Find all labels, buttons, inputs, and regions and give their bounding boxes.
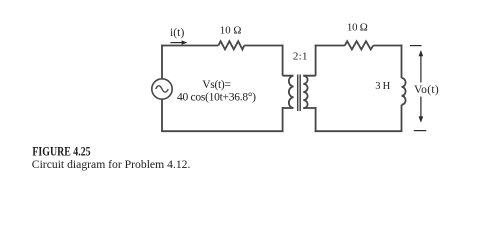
- svg-text:Vs(t)=: Vs(t)=: [202, 79, 231, 91]
- svg-text:i(t): i(t): [170, 27, 184, 39]
- wire left-loop top: [161, 45, 283, 47]
- resistor R2 10 ohm (right loop) zigzag: [345, 41, 374, 49]
- ac source Vs circle: [152, 79, 172, 99]
- svg-text:10 Ω: 10 Ω: [347, 22, 368, 34]
- current arrow i(t): [171, 40, 188, 44]
- wire right-loop right lower: [401, 105, 403, 132]
- inductor L1 3H (3 loops, bulge right): [402, 78, 406, 105]
- wire left-loop right + step into transformer primary: [283, 45, 294, 133]
- svg-text:40 cos(10t+36.8°): 40 cos(10t+36.8°): [177, 92, 256, 104]
- svg-text:2:1: 2:1: [293, 51, 308, 63]
- svg-text:3 H: 3 H: [375, 81, 390, 92]
- wire left-loop left upper: [161, 45, 163, 79]
- transformer core (two vertical lines): [298, 75, 301, 112]
- wire left-loop left lower: [161, 99, 163, 131]
- transformer secondary coil (4 loops, bulge right): [303, 76, 307, 109]
- transformer primary coil (3 loops, bulge left): [289, 76, 294, 108]
- voltage arrow Vo(t) (double-headed with end ticks): [410, 46, 426, 131]
- wire left-loop bottom: [161, 130, 283, 132]
- svg-text:Circuit diagram for Problem 4.: Circuit diagram for Problem 4.12.: [32, 157, 191, 171]
- ac source sine wave: [156, 86, 169, 92]
- svg-text:Vo(t): Vo(t): [414, 84, 439, 96]
- svg-text:10 Ω: 10 Ω: [220, 25, 242, 37]
- wire right-loop top: [315, 45, 403, 47]
- wire right-loop bottom: [315, 130, 403, 132]
- wire right-loop left + step into transformer secondary: [303, 45, 315, 133]
- resistor R1 10 ohm (left loop) zigzag: [218, 41, 244, 49]
- wire right-loop right upper: [401, 45, 403, 78]
